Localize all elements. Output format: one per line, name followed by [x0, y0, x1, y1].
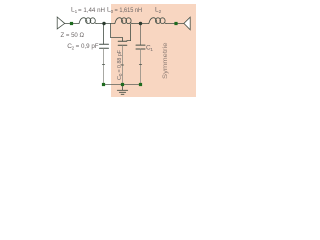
wire L2 to port P2	[166, 23, 184, 25]
capacitor C0 plates	[118, 40, 127, 42]
svg-text:1: 1	[150, 47, 153, 52]
svg-text:= 1,44 nH: = 1,44 nH	[78, 7, 105, 14]
wire L0 to node B	[132, 23, 149, 25]
label C2 value	[67, 43, 98, 51]
svg-text:Z = 50 Ω: Z = 50 Ω	[61, 32, 85, 39]
wire C0 to ground rail	[122, 45, 124, 84]
capacitor C0 branch: jog wire from node A side of rail	[111, 24, 123, 42]
label L1 value	[71, 7, 105, 15]
inductor L0	[115, 18, 132, 24]
ground node under C0 (green)	[121, 83, 124, 86]
port P2 (right)	[184, 17, 190, 30]
wire C2 to ground rail	[103, 48, 105, 84]
label C1	[146, 45, 153, 53]
port P1 (left source)	[57, 17, 64, 29]
svg-text:= 0,88 pF: = 0,88 pF	[117, 50, 123, 73]
wire L1 to node A	[96, 23, 110, 25]
ground rail wire	[104, 84, 141, 86]
joint tick on C0 branch	[121, 64, 123, 66]
wire P1 to node	[65, 23, 79, 25]
joint tick on C2 branch	[102, 64, 104, 66]
ground node under C1 (green)	[139, 83, 142, 86]
svg-text:= 1,615 nH: = 1,615 nH	[115, 7, 143, 14]
highlight panel (peach background of symmetric half)	[111, 4, 196, 97]
label L2	[155, 7, 162, 15]
terminal node at P1 (green)	[70, 22, 73, 25]
junction node A (dot)	[102, 22, 105, 25]
label L0 value	[107, 7, 142, 15]
svg-text:0: 0	[111, 9, 114, 14]
label Symmetrie (vertical)	[162, 42, 169, 79]
svg-text:Symmetrie: Symmetrie	[162, 42, 169, 79]
terminal node at P2 (green)	[174, 22, 177, 25]
svg-text:2: 2	[72, 45, 75, 50]
ground node under C2 (green)	[102, 83, 105, 86]
capacitor C2 plates	[100, 43, 109, 45]
svg-text:= 0,9 pF: = 0,9 pF	[76, 43, 99, 50]
capacitor C2 branch: wire from node A down	[103, 24, 105, 45]
wire node A to L0	[111, 23, 115, 25]
wire C1 to ground rail	[140, 49, 142, 85]
joint tick on C1 branch	[139, 64, 141, 66]
svg-text:2: 2	[159, 9, 162, 14]
inductor L1	[79, 18, 96, 24]
capacitor C0 bridge wire from node B side of rail	[127, 24, 131, 41]
capacitor C1 branch: wire from node B down	[140, 24, 142, 45]
label C0 value (vertical)	[117, 50, 123, 80]
ground	[117, 85, 127, 95]
inductor L2	[149, 18, 166, 24]
junction node B (dot)	[139, 22, 142, 25]
capacitor C1 plates	[136, 44, 145, 46]
